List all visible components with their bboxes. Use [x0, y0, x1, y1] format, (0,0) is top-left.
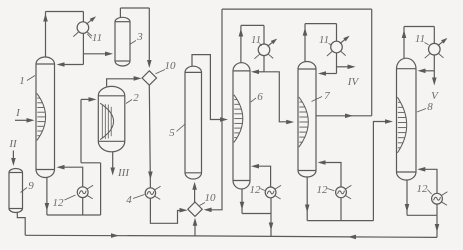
wire: recycle riser [371, 9, 373, 116]
wire: column 1 bottoms down with arrow [45, 178, 50, 216]
wire: column 1 bottoms horizontal [47, 214, 101, 216]
wire: evaporator 2 overhead to mixer 10a [107, 76, 142, 86]
label 7 with leader [312, 90, 331, 102]
svg-text:10: 10 [205, 192, 217, 204]
wire: tank 9 outlet jog [17, 213, 25, 236]
wire: column 6 overhead horizontal [241, 24, 264, 26]
label 11 (column 7) with leader [319, 34, 332, 46]
wire: column 7 overhead up with arrow [303, 24, 308, 62]
air condenser 11b [254, 39, 277, 59]
wire: drop to header with arrow [435, 215, 440, 237]
wire: reboiler 12d suction [436, 204, 438, 215]
mixer 10b (diamond) [188, 202, 202, 216]
label 1 with leader [19, 75, 35, 87]
label 2 with leader [126, 92, 139, 104]
label 12 (column 6) with leader [250, 184, 265, 196]
svg-text:8: 8 [427, 101, 433, 113]
wire: drop into condenser 11b [263, 25, 265, 44]
air condenser 11a [73, 16, 96, 36]
wire: drop into condenser 11a [82, 12, 84, 23]
label 3 with leader [130, 31, 144, 45]
svg-text:7: 7 [324, 90, 330, 102]
label 10 (upper) with leader [156, 60, 177, 74]
stream II arrow into tank 9 [11, 151, 16, 167]
svg-text:V: V [431, 90, 439, 102]
wire: mixer 10b outlet up into column 5 [192, 182, 197, 202]
bottom header pipe [25, 235, 437, 237]
wire: column 8 bottoms down with arrow [405, 180, 410, 215]
stream III label [117, 167, 130, 179]
wire: header riser into mixer 10b with arrow [193, 218, 198, 236]
wire: column 8 overhead horizontal [404, 26, 434, 28]
svg-text:3: 3 [136, 31, 143, 43]
wire: bottoms crossover [81, 162, 101, 164]
wire: feed into evaporator 2 with arrow [81, 97, 97, 102]
wire: column 6 bottoms down with arrow [240, 189, 245, 214]
wire: column 7 overhead horizontal [305, 23, 337, 25]
wire: bottoms riser [100, 163, 102, 215]
svg-text:11: 11 [251, 34, 261, 46]
svg-text:10: 10 [165, 60, 177, 72]
stream IV label [347, 76, 360, 88]
wire: drum 3 overhead up [119, 8, 121, 17]
svg-text:11: 11 [92, 32, 102, 44]
stream II label [8, 138, 18, 150]
wire: drum 3 overhead horizontal [120, 7, 149, 9]
reboiler 12a [77, 185, 93, 199]
wire: reboiler 12d return into column 8 [417, 167, 437, 193]
wire: reboiler 12a suction [82, 198, 84, 215]
column 5 body [185, 66, 202, 179]
wire: column 8 bottoms horizontal [407, 214, 437, 216]
arrowhead left on bottom header [348, 235, 356, 240]
svg-text:2: 2 [133, 92, 139, 104]
wire: condenser 11c outlet down [336, 53, 338, 74]
column 7 packing section (hatched crescent) [299, 97, 308, 147]
wire: branch to reflux drum 3 with arrow [83, 52, 113, 57]
wire: reboiler 12c suction [340, 198, 342, 221]
wire: column 7 bottoms down with arrow [305, 177, 310, 221]
stream I feed arrow into column 1 [15, 118, 35, 123]
reboiler 12d [432, 192, 448, 206]
label 11 (column 6) with leader [251, 34, 262, 46]
label 8 with leader [417, 101, 433, 113]
svg-text:6: 6 [257, 91, 263, 103]
svg-text:1: 1 [19, 75, 25, 87]
column 8 body [397, 58, 417, 180]
wire: reflux into column 6 with arrow [251, 70, 264, 75]
evaporator 2 body [98, 86, 125, 151]
stream III arrow from evaporator 2 [110, 152, 115, 176]
wire: column 1 overhead up [45, 12, 47, 58]
label 9 with leader [21, 180, 35, 193]
arrowhead right on bottom header [111, 233, 119, 238]
tank 9 [9, 169, 23, 213]
label 4 with leader [126, 194, 144, 206]
label 12 (left) with leader [53, 195, 76, 209]
wire: reflux into column 7 with arrow [318, 71, 337, 76]
stream V label [431, 90, 439, 102]
reflux drum 3 [115, 17, 130, 66]
label 12 (column 7) with leader [317, 184, 335, 196]
column K-1 (absorber) body [36, 57, 55, 178]
svg-text:12: 12 [53, 197, 65, 209]
wire: heater 4 outlet to mixer 10b [150, 198, 187, 223]
wire: condenser 11d outlet down [433, 55, 435, 71]
svg-text:11: 11 [415, 33, 425, 45]
wire: condenser 11b outlet down [263, 55, 265, 72]
svg-text:IV: IV [347, 76, 360, 88]
wire: column 6 overhead up with arrow [239, 25, 244, 62]
stream V product arrow [432, 71, 437, 86]
wire: reboiler 12b suction [270, 198, 272, 214]
arrowhead up on column 1 overhead [43, 14, 48, 22]
svg-text:5: 5 [169, 127, 175, 139]
wire: column 5 overhead to column 6 feed [192, 55, 228, 122]
wire: top-recycle into mixer 10b from right [204, 9, 222, 212]
wire: column 7 side draw to riser [316, 114, 372, 119]
wire: riser feed to column 8 [373, 119, 393, 220]
label 11 (column 8) with leader [415, 33, 429, 45]
stream IV product arrow [337, 65, 356, 70]
wire: reflux return into column 1 [57, 62, 84, 67]
svg-text:II: II [8, 138, 18, 150]
svg-text:9: 9 [28, 180, 34, 192]
wire: drop into condenser 11d [433, 27, 435, 44]
label 6 with leader [251, 91, 263, 103]
wire: column 7 bottoms horizontal to column 8 riser [307, 220, 373, 222]
column K-1 packing section (hatched crescent) [37, 93, 46, 140]
label 5 with leader [169, 125, 184, 140]
air condenser 11c [327, 36, 350, 56]
svg-text:I: I [15, 107, 21, 119]
air condenser 11d [425, 38, 448, 58]
wire: drop into condenser 11c [336, 24, 338, 42]
wire: condenser 11a outlet down [82, 33, 84, 65]
svg-text:12: 12 [317, 184, 329, 196]
column 6 packing section (hatched crescent) [234, 95, 243, 143]
wire: riser to evaporator 2 [80, 99, 82, 162]
column 8 packing section (hatched crescent) [397, 97, 406, 153]
svg-text:III: III [117, 167, 130, 179]
svg-text:12: 12 [417, 183, 429, 195]
heater 4 [145, 186, 160, 199]
wire: column 8 overhead up with arrow [402, 27, 407, 59]
wire: mixer 10a outlet down to heater 4 [148, 85, 153, 188]
column 7 body [298, 62, 316, 177]
wire: distillate of column 6 to column 7 [264, 72, 294, 125]
wire: reflux into column 8 with arrow [418, 69, 435, 74]
label 12 (column 8) with leader [417, 183, 432, 195]
evaporator 2 tube bundle arc [100, 103, 113, 139]
wire: reboiler 12a vapor return into column 1 [57, 165, 83, 187]
column 6 body [233, 63, 250, 189]
svg-text:4: 4 [126, 194, 132, 206]
svg-text:12: 12 [250, 184, 262, 196]
wire: reboiler 12b return into column 6 [251, 164, 271, 187]
wire: drop into mixer 10a with arrow [147, 8, 152, 68]
reboiler 12b [265, 185, 281, 199]
wire: column 6 bottoms drop to header with arrow [269, 214, 274, 237]
label 10 (lower) with leader [200, 192, 217, 206]
stream I label [15, 107, 21, 119]
mixer 10a (diamond) [142, 71, 156, 85]
label 11 (left) with leader [87, 32, 102, 44]
wire: column 6 bottoms horizontal [242, 213, 271, 215]
evaporator 2 tubes [102, 104, 111, 139]
top recycle header pipe [222, 8, 372, 10]
wire: column 1 overhead horizontal [46, 11, 84, 13]
wire: reboiler 12c return into column 7 [318, 160, 342, 187]
reboiler 12c [336, 185, 352, 199]
svg-text:11: 11 [319, 34, 329, 46]
